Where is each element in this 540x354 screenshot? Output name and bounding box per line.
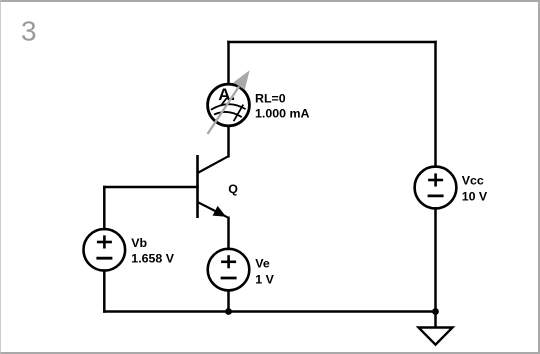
transistor Q base bar xyxy=(196,155,199,218)
svg-text:10 V: 10 V xyxy=(462,189,488,203)
ammeter scale tick 2 xyxy=(234,105,244,122)
svg-text:Vb: Vb xyxy=(131,236,147,250)
source Vcc plus xyxy=(428,173,443,186)
source Ve circle xyxy=(208,249,250,291)
source Vcc circle xyxy=(415,167,457,209)
wire ammeter bottom to collector xyxy=(227,126,230,156)
svg-text:1 V: 1 V xyxy=(255,273,274,287)
source Vb minus xyxy=(96,257,112,260)
svg-text:1.658 V: 1.658 V xyxy=(131,251,174,265)
wire bottom horizontal xyxy=(104,310,435,313)
wire ammeter top xyxy=(227,42,230,84)
svg-text:1.000 mA: 1.000 mA xyxy=(255,107,309,121)
node junction dot ground xyxy=(432,308,439,315)
wire base lead xyxy=(104,186,197,189)
source Ve minus xyxy=(221,277,237,280)
ammeter needle head xyxy=(233,70,249,90)
wire top horizontal xyxy=(229,41,436,44)
svg-text:3: 3 xyxy=(21,15,37,46)
ammeter U1 meter circle xyxy=(208,84,250,126)
svg-text:Vcc: Vcc xyxy=(462,174,484,188)
source Vb plus xyxy=(97,235,112,248)
source Vcc minus xyxy=(428,194,444,197)
wire left vertical lower xyxy=(103,271,106,312)
ammeter scale inner arc xyxy=(214,112,242,117)
transistor Q emitter diagonal xyxy=(198,202,228,217)
ammeter scale outer arc xyxy=(211,104,246,110)
node junction dot Ve-bottom xyxy=(225,308,232,315)
svg-text:Ve: Ve xyxy=(255,256,270,270)
wire Ve bottom xyxy=(227,290,230,311)
ground symbol xyxy=(419,328,453,345)
wire left vertical upper xyxy=(103,187,106,229)
wire emitter vertical xyxy=(227,218,230,249)
transistor Q collector diagonal xyxy=(198,156,228,172)
transistor Q emitter arrowhead xyxy=(213,206,227,217)
wire right vertical lower xyxy=(434,208,437,311)
ammeter scale tick 1 xyxy=(221,98,227,106)
source Vb circle xyxy=(84,229,126,271)
source Ve plus xyxy=(221,255,236,268)
svg-text:Q: Q xyxy=(228,182,238,196)
ammeter needle line xyxy=(208,87,240,135)
wire ground lead xyxy=(434,312,437,327)
wire right vertical upper xyxy=(434,42,437,167)
svg-text:RL=0: RL=0 xyxy=(255,91,286,105)
